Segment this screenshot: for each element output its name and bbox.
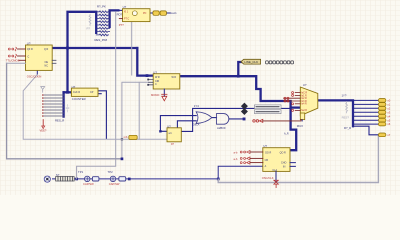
svg-text:A2B09: A2B09 [217, 126, 226, 130]
resistor pack RP1 zigzags [96, 11, 109, 36]
node junction (121.9,158.8) [121, 158, 124, 161]
resistor R? ghost gray vertical [89, 15, 91, 26]
svg-text:OSC/CLKIN: OSC/CLKIN [27, 75, 42, 79]
node junction at (68,48) [66, 47, 69, 50]
wire gray net C vertical x=121.9 [122, 82, 149, 159]
node dark star icon [241, 103, 248, 110]
svg-text:In4 R: In4 R [301, 104, 307, 106]
svg-text:W R: W R [155, 76, 160, 79]
capacitor/switch pair 1 box [92, 177, 99, 181]
capacitor/switch pair 2 circle [110, 176, 115, 181]
svg-text:1Y4: 1Y4 [194, 104, 199, 108]
node junction (121.9,139.2) [121, 138, 123, 140]
capacitor C1 small yellow series part 1 [153, 11, 159, 15]
resistor R2 small yellow in gray net D [129, 135, 137, 139]
svg-text:CHO: CHO [281, 162, 286, 165]
wire right bus bottom jog to 9th resistor [353, 126, 378, 135]
op 74LS counter U6 box bottom right [263, 148, 290, 172]
op U5 box under gates [167, 128, 181, 142]
svg-text:x1: x1 [387, 103, 390, 107]
svg-text:R?_R: R?_R [344, 126, 351, 130]
svg-text:In1 R: In1 R [301, 95, 307, 97]
svg-text:OE: OE [45, 61, 49, 64]
wire port branch x=238.3 [238, 62, 241, 76]
XTAL lower left pin stub [119, 18, 122, 20]
AND output red arrow glyph row [253, 120, 255, 122]
no-erc red bowtie on clock net [274, 180, 279, 184]
mux left red pins [284, 93, 301, 111]
74LS left red pin glyphs [240, 151, 250, 165]
wire XTAL output stubs [150, 12, 170, 14]
svg-text:CAP/SW: CAP/SW [109, 182, 120, 186]
node junction at (68,92.3) [66, 91, 69, 94]
node junction (76.6,178.9) [75, 178, 78, 181]
op MUX U7 trapezoid [300, 87, 318, 116]
node junction (218.2,178.9) [217, 178, 220, 181]
svg-text:R?: R? [87, 27, 91, 31]
wire AND gate output [229, 118, 244, 120]
svg-text:mb: mb [124, 135, 128, 139]
svg-text:C: C [28, 56, 30, 59]
connector J2 left pins rows [44, 95, 64, 116]
svg-text:CP: CP [90, 91, 94, 94]
op OSC component U1 box [26, 45, 53, 70]
wire U5 output up and right to mux bus [181, 108, 290, 131]
node junction (129.2,178.9) [128, 178, 131, 181]
right side port red texts [387, 99, 390, 138]
svg-text:MONO: MONO [151, 93, 159, 97]
wire connector bus x=63.6 [62, 92, 64, 116]
svg-text:x4: x4 [387, 114, 390, 118]
monostable extra left stubs [149, 80, 154, 85]
svg-text:x7: x7 [387, 133, 390, 137]
svg-text:LINE_CLK: LINE_CLK [244, 60, 258, 64]
svg-text:PT C: PT C [124, 18, 130, 20]
wire gray net B from OSC pin4 [7, 63, 122, 159]
node junction at (238.3,76.2) [237, 75, 240, 78]
74LS clock bottom stub [275, 171, 277, 182]
svg-text:TP2: TP2 [108, 170, 114, 174]
capacitor C2 small yellow series part 2 [160, 11, 166, 15]
wire monostable jog x=137.3 [137, 48, 153, 76]
OSC left red pin glyphs [8, 47, 16, 58]
svg-text:DO R: DO R [265, 151, 271, 154]
ground antenna symbol above connector [41, 87, 45, 93]
wire gray return line bottom right [218, 136, 378, 182]
node junction at (147,75.6) [146, 74, 149, 77]
resistor output row stubs + parts right side [354, 100, 378, 124]
wire U5 to OR gate input 1 [160, 116, 196, 132]
monostable ground arrow [163, 89, 165, 96]
svg-text:RES_PK8: RES_PK8 [95, 38, 108, 42]
svg-text:S?: S? [56, 173, 60, 177]
wire vertical x=68 down to counter [66, 48, 68, 92]
wire gray net A x=115.7 tall vertical [77, 12, 116, 179]
svg-text:CAP/SW: CAP/SW [83, 182, 94, 186]
switch DIP striped block [56, 177, 75, 181]
wire thick branch into mux pin y=107.6 [291, 106, 301, 108]
svg-text:CLK R: CLK R [73, 91, 80, 94]
wire OSC bottom pin stub [36, 71, 38, 75]
svg-text:InC R: InC R [301, 93, 307, 95]
wire bottom switch line y=178.9 [53, 178, 219, 180]
svg-text:U?: U? [263, 144, 267, 148]
capacitor/switch pair 2 box [119, 177, 126, 181]
74LS right stubs [290, 163, 295, 167]
svg-text:CLA: CLA [272, 169, 277, 172]
svg-text:x5: x5 [387, 118, 390, 122]
svg-text:PO: PO [143, 13, 147, 15]
svg-text:TTL/CMOS: TTL/CMOS [6, 59, 20, 63]
svg-text:W R: W R [172, 76, 177, 79]
svg-text:R?_PK: R?_PK [97, 5, 106, 9]
svg-text:PD?: PD? [117, 13, 123, 17]
node pin dot (160.4,131.3) [159, 130, 161, 132]
op XTAL oscillator U2 box [123, 9, 151, 22]
connector J1 jumper squares row [266, 61, 294, 64]
wire OSC output horizontal y=48 [52, 47, 137, 49]
wire up from switch line to 74LS A pin [218, 166, 263, 179]
svg-text:OSC/CLK: OSC/CLK [262, 176, 274, 180]
svg-text:VEE?: VEE? [40, 129, 47, 133]
svg-text:osc1: osc1 [171, 11, 177, 15]
svg-text:SeI R: SeI R [301, 110, 307, 112]
svg-text:RES_R: RES_R [55, 119, 64, 123]
svg-text:CB: CB [265, 159, 269, 162]
svg-text:U?: U? [123, 5, 127, 9]
wire monostable output to mux bus [180, 76, 296, 150]
gate OR G1 [196, 112, 212, 124]
wire gray net D diagonal from OSC bottom [23, 75, 167, 140]
svg-text:TP1: TP1 [78, 170, 84, 174]
wire counter clock feed y=92.3 [64, 91, 72, 93]
tiny component pin texts [27, 48, 289, 172]
svg-text:A_R: A_R [284, 133, 289, 136]
wire resistor pack right bus [110, 10, 119, 27]
svg-text:D8CA: D8CA [193, 124, 200, 127]
svg-text:x3: x3 [387, 110, 390, 114]
svg-text:XI 1: XI 1 [124, 11, 129, 13]
wire gray net E monostable pin down [138, 82, 140, 139]
wire gray net F from XTAL bottom pin [131, 22, 133, 75]
svg-text:U?: U? [27, 41, 31, 45]
wire XTAL pin1 stub [118, 9, 122, 11]
label striped boxes [255, 105, 282, 109]
node junction square (244,118.9) [243, 118, 246, 121]
svg-text:COUNTER: COUNTER [72, 97, 86, 101]
svg-text:NC: NC [45, 64, 49, 67]
svg-text:QO R: QO R [280, 151, 286, 154]
text labels group [27, 5, 351, 177]
mux bottom tab pin [301, 120, 303, 121]
wire counter right stub 2 [98, 93, 101, 95]
svg-text:1Y?: 1Y? [342, 94, 347, 98]
svg-text:QF R: QF R [27, 48, 33, 51]
svg-text:RES?: RES? [342, 116, 350, 120]
svg-text:U?: U? [153, 70, 157, 74]
op MONOSTABLE U4 box [153, 74, 180, 89]
capacitor C? faint marks [66, 105, 69, 112]
svg-text:a-b: a-b [234, 157, 238, 161]
capacitor/switch pair 1 circle [85, 176, 90, 181]
wire vertical x=68 up to resistor pack bus [68, 12, 97, 48]
power VEE down arrow below connector [42, 120, 44, 126]
svg-text:PT?: PT? [119, 23, 124, 27]
wire mux output y=100.2 to right bus [318, 100, 353, 126]
svg-text:U?: U? [303, 83, 307, 87]
port LINE_CLK [241, 59, 261, 64]
svg-text:x0: x0 [387, 99, 390, 103]
switch SW1 circle component [44, 176, 50, 182]
wire U5 top pin to OR gate input 2 [177, 121, 196, 128]
svg-text:U?: U? [167, 124, 171, 128]
svg-text:MUX: MUX [297, 124, 303, 128]
wire OR to AND [212, 117, 217, 119]
op COUNTER U3 box [71, 88, 98, 96]
svg-text:x6: x6 [387, 122, 390, 126]
svg-text:x2: x2 [387, 106, 390, 110]
svg-text:Q R: Q R [44, 48, 49, 51]
svg-text:IN: IN [283, 166, 286, 169]
svg-text:U?: U? [72, 85, 76, 89]
gate AND G2 [217, 114, 229, 125]
wire counter right pin down [98, 91, 106, 139]
svg-text:In2 R: In2 R [301, 98, 307, 100]
svg-text:C: C [155, 83, 157, 86]
svg-text:In3 R: In3 R [301, 101, 307, 103]
resistor R? ghost gray vertical right side [346, 102, 348, 113]
svg-text:a-b: a-b [234, 150, 238, 154]
wire OSC right stubs [52, 60, 56, 63]
